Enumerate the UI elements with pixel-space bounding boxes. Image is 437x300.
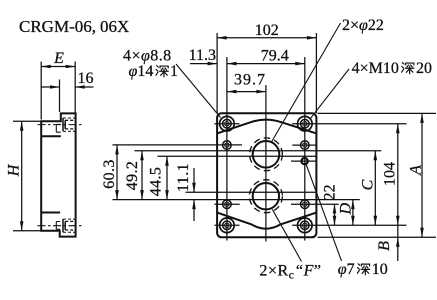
svg-text:22: 22: [322, 184, 339, 200]
leader line for 4xM10: [310, 69, 349, 119]
svg-text:CRGM-06,: CRGM-06,: [19, 17, 96, 36]
leader line for 2xRc F: [272, 209, 301, 261]
mounting bolt hole top-right: [292, 116, 406, 131]
extension line plate top to A: [318, 112, 437, 114]
mounting bolt hole top-left: [214, 116, 239, 131]
front view top roof contour line: [217, 120, 316, 134]
dimension 104 line: [397, 124, 399, 226]
front view bottom valley contour line: [217, 213, 316, 229]
small hole lower-left: [214, 200, 239, 209]
dimension 79.4 line: [227, 63, 305, 65]
svg-text:104: 104: [382, 162, 399, 186]
svg-text:4×M10: 4×M10: [352, 60, 399, 77]
svg-text:A: A: [407, 165, 424, 176]
svg-text:20: 20: [416, 60, 432, 77]
svg-text:39.7: 39.7: [234, 72, 266, 89]
leader line for 4x phi8.8: [176, 64, 221, 118]
bottom port circle phi22: [253, 183, 279, 209]
small hole upper-left: [223, 141, 232, 150]
side view top port thread hidden lines: [65, 120, 75, 129]
dimension H line: [21, 121, 23, 231]
dimension 11.1 upper line: [193, 168, 195, 192]
small hole upper-right: [292, 141, 317, 150]
svg-text:2×φ22: 2×φ22: [342, 17, 384, 34]
small hole lower-right: [291, 200, 339, 209]
side view top port counterbore notch: [56, 124, 61, 132]
svg-text:φ7: φ7: [338, 261, 355, 278]
svg-text:C: C: [360, 179, 377, 190]
extension line y150.7 row: [135, 150, 382, 152]
dimension H extension lines: [13, 121, 41, 231]
top port thread dashed circle: [250, 138, 283, 171]
side view bottom port thread hidden lines: [65, 221, 75, 230]
svg-text:16: 16: [78, 70, 94, 87]
side view top port centerline: [38, 124, 85, 126]
bottom port thread dashed circle: [249, 180, 282, 213]
phi7 hole crosshair: [291, 160, 317, 162]
svg-text:49.2: 49.2: [124, 161, 141, 191]
extension line plate bottom to A and B: [318, 236, 437, 238]
dimension 11.3 line: [190, 63, 217, 65]
mounting bolt hole bottom-right: [292, 218, 406, 233]
dimension D line: [352, 200, 354, 226]
dimension 11.1 lower line: [193, 200, 195, 221]
phi7 hole: [302, 158, 308, 164]
svg-text:60.3: 60.3: [101, 159, 118, 189]
dimension E line: [41, 66, 75, 68]
extension line y191.9 row: [186, 191, 317, 193]
dimension 60.3 line: [116, 145, 118, 200]
dimension 16 extension line: [59, 80, 61, 113]
svg-text:10: 10: [372, 261, 388, 278]
extension line y156.3 row: [158, 155, 317, 157]
svg-text:79.4: 79.4: [261, 48, 289, 65]
svg-text:1: 1: [170, 63, 178, 80]
mounting bolt hole bottom-left: [214, 218, 239, 233]
dimension B line: [397, 225, 399, 237]
svg-text:φ14: φ14: [129, 63, 154, 80]
dimension 102 line: [217, 37, 316, 39]
svg-text:44.5: 44.5: [147, 167, 164, 197]
svg-text:B: B: [376, 241, 393, 251]
leader line for phi7: [306, 165, 341, 262]
svg-text:4×φ8.8: 4×φ8.8: [123, 48, 172, 65]
extension line plate left edge up: [216, 33, 218, 113]
view vertical centerline: [265, 85, 267, 242]
extension line y199.6 baseline row: [113, 199, 360, 201]
dimension 49.2 line: [141, 151, 143, 200]
extension line y145 row: [113, 144, 243, 146]
svg-text:11.3: 11.3: [189, 47, 216, 64]
dimension E extension lines: [41, 62, 75, 120]
side view bottom port counterbore notch: [56, 222, 60, 230]
svg-text:D: D: [338, 202, 355, 215]
hole column centerline right: [304, 57, 306, 241]
side view top boss bottom edge: [41, 135, 61, 137]
side view top port bore lines: [63, 118, 65, 131]
svg-text:06X: 06X: [100, 17, 129, 36]
front view plate outline: [217, 113, 316, 237]
dimension 44.5 line: [166, 156, 168, 199]
dimension A line: [421, 113, 423, 237]
hole column centerline left: [226, 57, 228, 241]
side view bottom port centerline: [38, 225, 85, 227]
side view plate outline: [41, 113, 75, 236]
dimension 39.7 line: [227, 91, 266, 93]
dimension 16 lines: [41, 86, 59, 88]
extension line plate right edge up: [315, 33, 317, 113]
svg-text:102: 102: [255, 22, 279, 39]
top port circle phi22: [253, 141, 280, 168]
side view bottom boss top edge: [41, 212, 60, 214]
dimension 22 line: [334, 204, 336, 225]
dimension C line: [374, 151, 376, 226]
leader line for 2x phi22: [272, 23, 341, 142]
svg-text:11.1: 11.1: [175, 163, 192, 192]
svg-text:H: H: [6, 163, 23, 177]
side view bottom port bore lines: [63, 219, 65, 232]
svg-text:E: E: [53, 50, 64, 67]
